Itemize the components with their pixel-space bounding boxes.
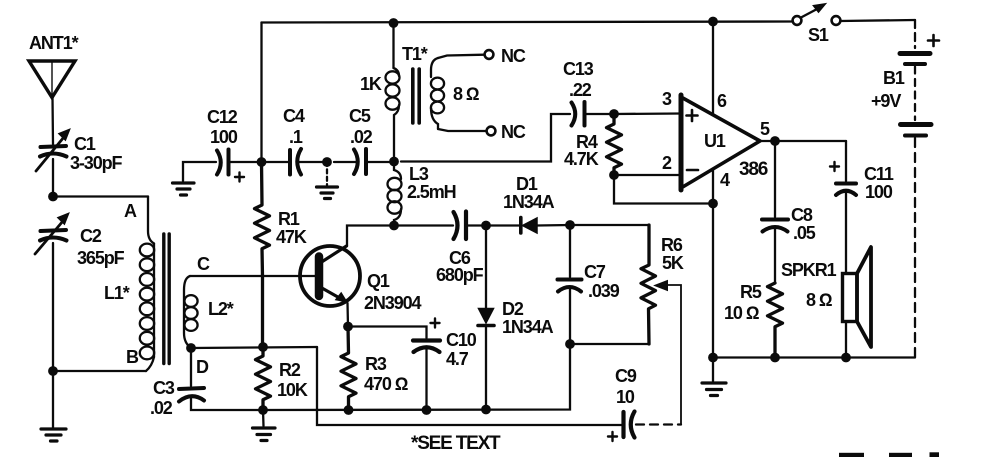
terminal NC bottom: [487, 127, 496, 136]
ground (antenna section): [41, 429, 66, 441]
node C2/L1 bottom junction: [48, 366, 58, 376]
transformer T1 secondary winding 8 ohm: [431, 58, 444, 129]
svg-text:.22: .22: [569, 80, 592, 100]
svg-text:680pF: 680pF: [436, 265, 484, 285]
wire D2 stem: [485, 226, 487, 309]
svg-text:D: D: [196, 357, 209, 377]
svg-text:A: A: [124, 201, 137, 221]
svg-text:8 Ω: 8 Ω: [453, 84, 480, 104]
svg-text:3: 3: [662, 89, 672, 109]
wire S1 to battery corner: [841, 20, 916, 21]
svg-text:C4: C4: [283, 106, 305, 126]
svg-text:1K: 1K: [360, 74, 382, 94]
wire U1 pin 2: [614, 174, 681, 176]
wire middle bottom rail: [263, 344, 570, 410]
svg-text:NC: NC: [501, 122, 526, 142]
wire ground stub pin4 rail: [712, 358, 714, 382]
wire C7 to bottom node: [569, 287, 571, 344]
svg-text:4.7K: 4.7K: [564, 149, 599, 169]
wire R2 ground stub: [262, 410, 265, 426]
caption fragment Fig (clipped at bottom edge): [839, 452, 939, 457]
wire battery to bottom rail dashed: [914, 138, 916, 358]
svg-text:L1*: L1*: [104, 283, 130, 303]
svg-text:Q1: Q1: [367, 271, 390, 291]
svg-text:R3: R3: [365, 354, 387, 374]
wire C8 stem: [774, 141, 776, 217]
wire U1 output pin5: [760, 140, 846, 142]
svg-text:5K: 5K: [662, 253, 684, 273]
wire D2 to bottom rail: [485, 328, 487, 410]
diode D1 1N34A: [521, 218, 537, 234]
plus sign C11: [830, 162, 839, 171]
svg-text:C: C: [197, 254, 210, 274]
svg-text:8 Ω: 8 Ω: [806, 290, 833, 310]
ground (C4/C5 node): [317, 187, 338, 199]
svg-text:S1: S1: [808, 25, 829, 45]
node rail ground: [708, 353, 718, 363]
wire C3 to bottom rail: [191, 396, 263, 410]
wire D1 to C7 node: [537, 224, 570, 227]
svg-text:6: 6: [717, 91, 727, 111]
capacitor C5 .02: [354, 149, 366, 174]
resistor R6 5K potentiometer: [641, 225, 656, 344]
svg-text:D2: D2: [502, 299, 524, 319]
svg-text:B: B: [126, 347, 139, 367]
svg-text:L3: L3: [409, 164, 429, 184]
node R2 bottom: [258, 405, 268, 415]
svg-text:100: 100: [210, 127, 238, 147]
svg-text:1N34A: 1N34A: [503, 192, 555, 212]
svg-text:T1*: T1*: [402, 44, 428, 64]
svg-text:365pF: 365pF: [77, 248, 125, 268]
wire C1 to node: [52, 159, 54, 197]
wire node D to R2: [191, 347, 317, 348]
svg-text:ANT1*: ANT1*: [29, 33, 79, 53]
svg-text:NC: NC: [501, 46, 526, 66]
svg-text:C9: C9: [615, 366, 637, 386]
ground (amplifier): [702, 383, 726, 396]
inductor L2 (secondary winding): [184, 276, 198, 348]
svg-text:R6: R6: [661, 235, 683, 255]
wire C7 bottom to R6 bottom: [570, 343, 649, 345]
svg-text:2: 2: [662, 153, 672, 173]
capacitor C13 .22: [572, 102, 585, 126]
plus sign C12: [235, 173, 244, 182]
wire Q1 collector riser: [347, 226, 394, 247]
node pin4 / pin2 ground tie: [708, 199, 718, 209]
node C13/R4 top: [609, 109, 619, 119]
wire to ground: [52, 371, 54, 428]
wire top-left vertical drop: [260, 23, 262, 163]
svg-text:10 Ω: 10 Ω: [724, 303, 760, 323]
wire emitter to C10: [348, 327, 427, 339]
wire C11 to speaker: [845, 191, 847, 273]
wiper arrow R6: [655, 281, 682, 425]
svg-text:C11: C11: [864, 164, 894, 184]
ground (C12 input): [173, 183, 195, 195]
node C12/C4/R1 junction: [257, 157, 267, 167]
wire ground stub to C12: [183, 162, 216, 181]
wire U1 pin6 column: [712, 22, 714, 116]
svg-text:C5: C5: [349, 106, 371, 126]
wire C7 stem: [569, 225, 571, 277]
diode D2 1N34A: [478, 309, 494, 326]
svg-text:2.5mH: 2.5mH: [407, 182, 456, 202]
wire top supply rail: [262, 22, 793, 23]
node R3 bottom: [344, 405, 354, 415]
capacitor C7 .039: [558, 280, 582, 292]
svg-text:D1: D1: [516, 174, 538, 194]
svg-text:C7: C7: [584, 262, 606, 282]
node T1/L3/C5 junction: [389, 157, 399, 167]
wire C11 column: [845, 141, 847, 181]
wire Q1 base: [190, 275, 315, 277]
resistor R2 10K: [256, 347, 271, 410]
node R2 top: [258, 342, 268, 352]
svg-text:+9V: +9V: [871, 91, 901, 111]
ground (R2): [253, 428, 276, 441]
node output junction: [770, 136, 780, 146]
wire node A horizontal: [53, 195, 148, 197]
svg-text:386: 386: [739, 159, 768, 180]
svg-text:R5: R5: [740, 282, 762, 302]
capacitor C12 100: [217, 150, 229, 175]
op-amp U1 386: [681, 95, 760, 190]
svg-text:L2*: L2*: [208, 299, 234, 319]
wire R4 bottom to pin4 node: [614, 175, 713, 204]
terminal NC top: [485, 50, 494, 59]
wire C9 dashed to wiper line: [636, 423, 681, 425]
node C7 bottom: [565, 339, 575, 349]
svg-text:470 Ω: 470 Ω: [364, 374, 409, 394]
wire C2 to lower node: [52, 243, 54, 371]
speaker SPKR1: [843, 247, 872, 347]
svg-text:*SEE TEXT: *SEE TEXT: [411, 433, 501, 454]
svg-text:10K: 10K: [277, 380, 308, 400]
node L3/C6 junction: [389, 221, 399, 231]
svg-text:4: 4: [720, 170, 730, 190]
capacitor C9 10: [624, 412, 635, 438]
node D junction: [186, 343, 196, 353]
svg-text:2N3904: 2N3904: [364, 293, 422, 313]
inductor L3 2.5mH: [388, 162, 402, 226]
svg-text:.02: .02: [350, 127, 373, 147]
plus sign C9: [608, 432, 617, 441]
plus sign C10: [431, 319, 440, 328]
wire T1 primary top lead: [392, 23, 394, 68]
capacitor C11 100: [836, 184, 856, 196]
transformer core T1: [413, 69, 419, 123]
node R4 bottom / pin2: [609, 170, 619, 180]
transformer core L1/L2: [164, 234, 169, 364]
wire secondary to NC top: [438, 55, 484, 58]
wire signal line to C13 riser: [401, 114, 570, 162]
svg-text:5: 5: [760, 119, 770, 139]
wire C3 stem: [190, 348, 192, 386]
switch S1: [793, 4, 841, 25]
node top rail / U1 pin6: [708, 17, 718, 27]
wire Q1 emitter drop: [346, 303, 349, 327]
resistor R4 4.7K: [607, 114, 622, 175]
node top rail / T1: [389, 18, 399, 28]
wire speaker bottom rail: [713, 356, 915, 358]
wire C6 to node: [466, 224, 486, 226]
wire C13 to pin3 node: [585, 113, 615, 115]
wire antenna to C1: [51, 98, 54, 145]
svg-text:1N34A: 1N34A: [502, 317, 554, 337]
node D1/C7/R6 junction: [565, 220, 575, 230]
svg-text:R2: R2: [279, 360, 301, 380]
wire speaker to rail: [845, 322, 847, 358]
transformer T1 primary winding 1K: [386, 68, 400, 162]
wire C12 to node: [231, 161, 262, 163]
wire node to R6 corner: [570, 224, 649, 226]
wire U1 pin4 column: [712, 169, 714, 358]
svg-text:.02: .02: [150, 398, 173, 418]
capacitor C4 .1: [290, 149, 301, 175]
wire L3 node to C6: [394, 224, 453, 226]
battery B1 +9V: [900, 54, 931, 136]
node R5 bottom: [770, 353, 780, 363]
wire node to C4: [262, 161, 289, 163]
svg-text:47K: 47K: [276, 227, 307, 247]
svg-text:B1: B1: [883, 68, 905, 88]
capacitor C10 4.7: [413, 341, 440, 353]
svg-text:10: 10: [616, 387, 635, 407]
svg-text:C3: C3: [153, 378, 175, 398]
plus sign battery: [928, 35, 939, 46]
svg-text:4.7: 4.7: [446, 349, 469, 369]
svg-text:.1: .1: [289, 127, 303, 147]
wire C4 to node: [297, 161, 327, 163]
node C4/C5/ground junction: [322, 157, 332, 167]
resistor R5 10 ohm: [768, 283, 783, 358]
resistor R1 47K: [255, 162, 270, 347]
plus input mark: [687, 110, 698, 121]
svg-text:C13: C13: [563, 59, 594, 79]
svg-text:C2: C2: [80, 226, 102, 246]
svg-text:.05: .05: [793, 223, 816, 243]
svg-text:.039: .039: [588, 281, 620, 301]
svg-text:C1: C1: [74, 134, 96, 154]
svg-text:C8: C8: [791, 205, 813, 225]
node speaker bottom: [841, 353, 851, 363]
wire ground stub under C4 node: [326, 162, 328, 185]
wire R2 box riser: [317, 347, 622, 425]
wire secondary to NC bottom: [438, 129, 486, 131]
wire node B horizontal: [53, 370, 146, 372]
capacitor C1 (variable 3-30pF): [36, 129, 70, 171]
capacitor C2 (variable 365pF): [35, 213, 69, 254]
antenna ANT1: [29, 61, 75, 98]
svg-text:C10: C10: [446, 330, 477, 350]
svg-text:SPKR1: SPKR1: [781, 260, 837, 280]
wire U1 pin 3: [614, 112, 681, 115]
node C6/D1/D2 junction: [481, 221, 491, 231]
inductor L1 (primary winding): [140, 197, 154, 372]
node C1/C2 junction: [48, 192, 58, 202]
wire C10 to bottom rail: [425, 348, 427, 411]
wire node to D1: [486, 224, 519, 226]
svg-text:U1: U1: [704, 131, 726, 151]
svg-text:100: 100: [865, 182, 893, 202]
resistor R3 470 ohm: [341, 327, 356, 411]
svg-text:C12: C12: [207, 107, 238, 127]
transistor Q1 2N3904: [300, 246, 360, 306]
wire C5 wiring: [334, 161, 394, 163]
node C10 bottom: [422, 405, 432, 415]
node D2 bottom: [481, 405, 491, 415]
svg-text:3-30pF: 3-30pF: [70, 153, 123, 173]
wire C8 to R5: [774, 227, 776, 283]
node emitter junction: [343, 322, 353, 332]
capacitor C6 680pF: [454, 212, 467, 240]
minus input mark: [687, 169, 698, 172]
capacitor C8 .05: [762, 220, 788, 232]
svg-text:R1: R1: [278, 209, 300, 229]
capacitor C3 .02: [179, 388, 204, 402]
